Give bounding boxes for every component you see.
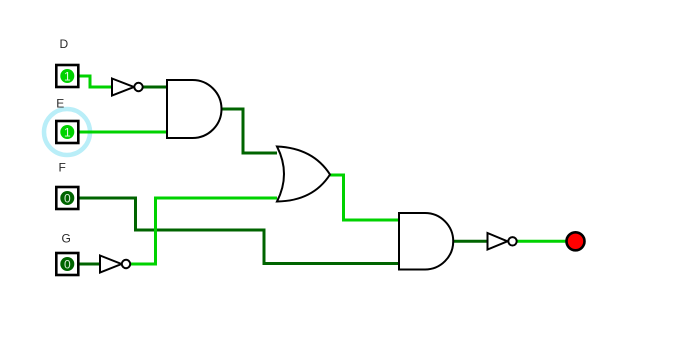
inverter U3 (on G) — [100, 256, 130, 273]
wire E to AND1 (bright green, value 1) — [79, 131, 167, 134]
wire D to inverter (bright green, value 1) — [79, 76, 112, 87]
AND gate AND1 — [167, 80, 222, 138]
wire F to AND2 bottom input (dark green, value 0) — [79, 198, 399, 264]
inverter U1 (on D) — [112, 79, 143, 96]
svg-text:1: 1 — [64, 125, 71, 139]
wire inverter U1 output to AND1 (dark green, value 0) — [142, 86, 167, 89]
input pin F (value 0) — [56, 187, 78, 209]
wire OR1 output to AND2 top input (bright green, value 1) — [330, 175, 399, 220]
input pin G (value 0) — [56, 253, 78, 275]
svg-text:D: D — [60, 37, 69, 51]
svg-text:F: F — [59, 161, 66, 175]
wire AND2 output to inverter U2 (dark green, value 0) — [453, 240, 488, 243]
wire G to inverter U3 (dark green, value 0) — [79, 263, 100, 266]
svg-text:0: 0 — [64, 257, 71, 271]
svg-text:0: 0 — [64, 191, 71, 205]
svg-text:1: 1 — [64, 69, 71, 83]
wire AND1 output to OR1 top input (dark green, value 0) — [221, 109, 277, 153]
halo around pin E — [44, 109, 90, 155]
svg-text:G: G — [62, 232, 71, 246]
input pin D (value 1) — [56, 65, 78, 87]
input pin E (value 1) — [56, 121, 78, 143]
wire inverter U3 output to OR1 bottom input (bright green, value 1) — [130, 198, 277, 264]
LED output (lit red) — [567, 232, 585, 250]
OR gate OR1 — [277, 147, 330, 202]
inverter U2 (output stage) — [488, 233, 517, 250]
wire inverter U2 output to LED (bright green, value 1) — [517, 240, 566, 243]
AND gate AND2 — [399, 213, 453, 270]
svg-text:E: E — [56, 97, 64, 111]
